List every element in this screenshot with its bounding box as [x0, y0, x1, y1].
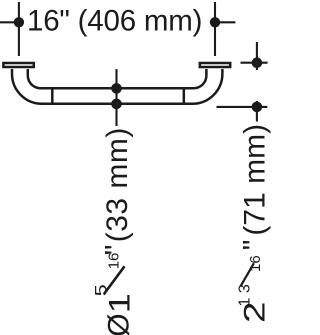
svg-text:16: 16	[247, 255, 264, 272]
dimension line left segment	[0, 21, 19, 23]
dot right dimension upper	[252, 57, 263, 68]
extension line right (top dimension)	[214, 2, 216, 56]
weld joint line right	[183, 87, 186, 105]
dot left (top dimension)	[14, 17, 24, 27]
dot right (top dimension)	[210, 17, 220, 27]
right flange	[200, 63, 230, 67]
svg-text:(33 mm): (33 mm)	[101, 127, 134, 242]
svg-text:Ø: Ø	[103, 313, 136, 335]
label 2 13/16" (71 mm), rotated	[236, 124, 271, 323]
right dimension upper reference line	[241, 62, 268, 64]
weld joint line left	[51, 87, 54, 105]
right dimension lower stub	[256, 101, 258, 122]
grab bar inner (top) contour	[28, 69, 207, 88]
dot on tube bottom	[111, 99, 122, 110]
grab bar outer (bottom) contour	[12, 69, 222, 104]
right dimension lower reference line	[217, 106, 268, 108]
extension line left (top dimension)	[18, 2, 20, 56]
dot right dimension lower	[252, 102, 263, 113]
left flange	[3, 63, 33, 67]
svg-text:16" (406 mm): 16" (406 mm)	[27, 5, 202, 38]
label diameter 1 5/16" (33 mm), rotated	[92, 127, 137, 335]
svg-text:": "	[100, 245, 133, 256]
svg-text:(71 mm): (71 mm)	[238, 124, 271, 236]
right dimension upper stub	[256, 42, 258, 70]
svg-text:": "	[238, 240, 271, 251]
centre diameter line	[115, 69, 117, 126]
dot on tube top	[111, 83, 122, 94]
tick right of right dot	[215, 21, 235, 23]
svg-text:13: 13	[236, 280, 253, 307]
